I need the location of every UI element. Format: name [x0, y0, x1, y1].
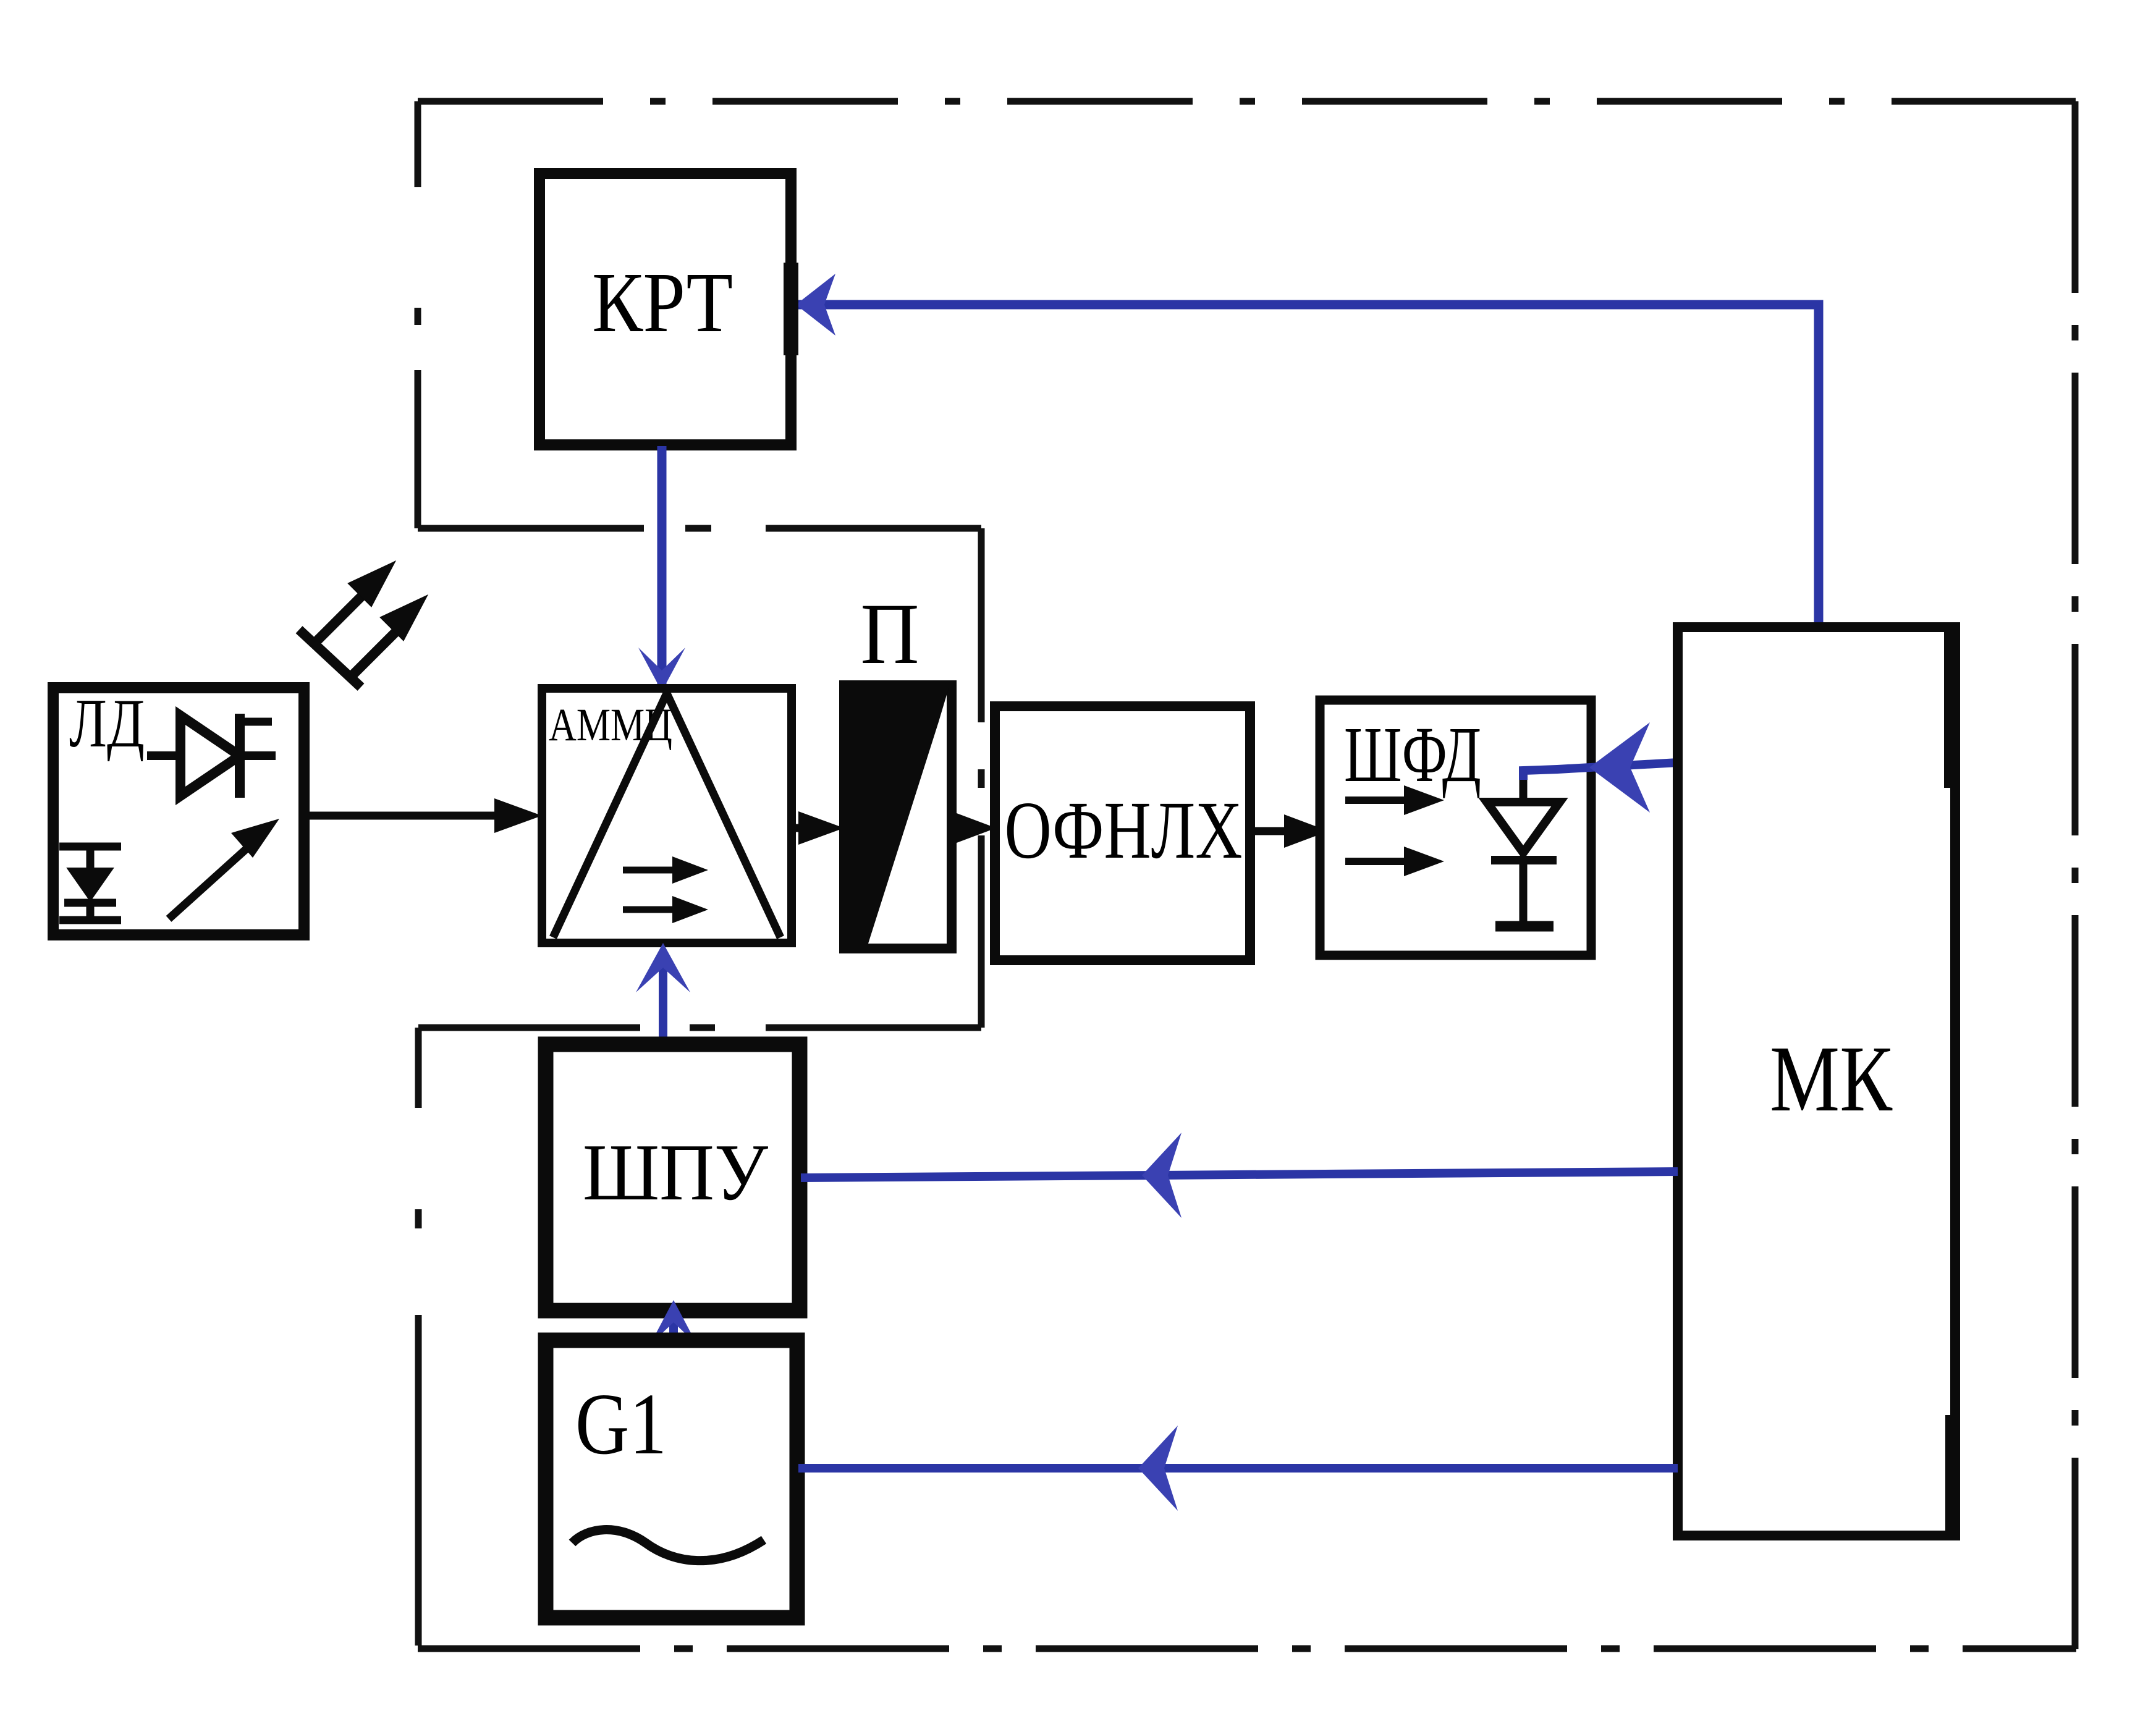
wire: black AMMC to P [792, 824, 803, 832]
sine wave inside G1 [572, 1530, 764, 1561]
block OFNLH [995, 706, 1250, 960]
arrowhead up into SHPU [650, 1300, 697, 1345]
emission double-arrow symbol above LD [299, 561, 428, 687]
svg-text:МК: МК [1770, 1027, 1893, 1131]
svg-text:ШПУ: ШПУ [583, 1128, 768, 1217]
outer dash-dot frame left edge upper part [415, 101, 421, 528]
block MK (microcontroller) [1678, 627, 1955, 1536]
block LD (laser diode module) [53, 688, 304, 935]
block AMMC (acousto-optic modulator) [542, 688, 792, 943]
arrowhead toward SHFD [1589, 722, 1650, 813]
black wedge inside P [845, 687, 949, 945]
svg-text:ОФНЛХ: ОФНЛХ [1005, 784, 1243, 876]
wire: black LD to AMMC [304, 812, 501, 820]
outer dash-dot frame bottom edge [418, 1646, 2076, 1652]
wire: blue MK to SHFD photodiode [1523, 763, 1678, 780]
arrowhead into AMMC top [638, 648, 685, 691]
monitor photodiode symbol inside LD [59, 847, 121, 920]
svg-text:G1: G1 [575, 1375, 667, 1473]
laser diode symbol inside LD [147, 714, 276, 798]
tilted arrow inside LD [169, 834, 263, 919]
inner dash-dot vertical x=1588 (right of AMMC/P area) [978, 528, 985, 1028]
wire: blue KRT to AMMC [657, 446, 667, 685]
photodiode symbol inside SHFD [1487, 772, 1560, 926]
arrows inside SHFD [1345, 785, 1444, 876]
block SHPU [546, 1044, 800, 1311]
wire: blue SHPU to AMMC bottom [659, 952, 667, 1050]
block G1 (generator) [546, 1340, 797, 1618]
thick border artifacts on MK [1944, 630, 1960, 788]
svg-text:ЛД: ЛД [69, 685, 145, 762]
svg-text:П: П [861, 586, 919, 682]
artifact: thick border patch on KRT right edge [784, 263, 798, 355]
block SHFD (photodetector) [1320, 700, 1591, 955]
arrowhead mid wire G1 [1138, 1426, 1178, 1511]
svg-text:ШФД: ШФД [1344, 711, 1481, 798]
arrowhead into KRT [796, 274, 835, 336]
arrowhead up into AMMC [636, 943, 690, 992]
wire: blue G1 to SHPU [669, 1311, 678, 1342]
wire: black P to OFNLH [952, 824, 957, 832]
inner dash-dot divider y=855 (bottom of KRT area / top of AMMC area) [418, 525, 981, 532]
arrowhead mid wire SHPU [1142, 1133, 1182, 1218]
outer dash-dot frame right edge [2072, 101, 2079, 1652]
arrows inside AMMC [623, 856, 708, 923]
wire: black OFNLH to SHFD [1250, 827, 1353, 835]
block P (polarizer) [844, 685, 952, 949]
svg-text:КРТ: КРТ [592, 255, 733, 350]
block KRT [539, 174, 791, 445]
wire: blue feedback line MK top to KRT [796, 305, 1819, 627]
triangle inside AMMC [553, 693, 780, 937]
inner dash-dot divider y=1663 (top of SHPU/G1 area) [418, 1025, 981, 1031]
wire: blue MK to SHPU [801, 1172, 1678, 1178]
outer dash-dot frame left edge lower part [415, 1028, 422, 1646]
outer dash-dot frame top edge [418, 98, 2076, 105]
wire: blue MK to G1 [798, 1464, 1678, 1473]
